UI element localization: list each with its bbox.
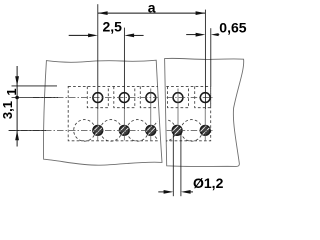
svg-text:Ø1,2: Ø1,2 — [193, 175, 224, 191]
svg-text:0,65: 0,65 — [219, 20, 246, 36]
svg-text:a: a — [148, 0, 156, 16]
svg-text:1: 1 — [4, 88, 19, 95]
svg-text:2,5: 2,5 — [103, 19, 123, 35]
svg-text:3,1: 3,1 — [0, 101, 15, 119]
